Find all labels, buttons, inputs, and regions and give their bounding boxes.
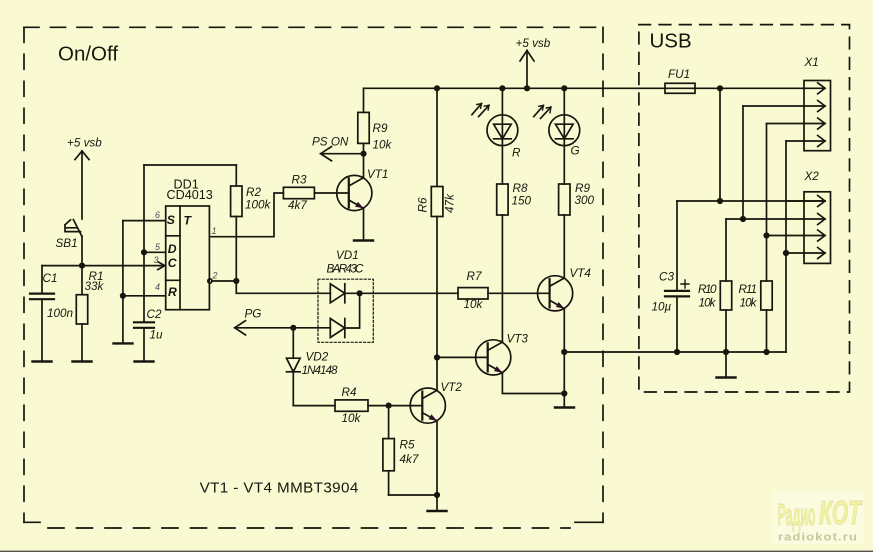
resistor R1: [76, 266, 87, 362]
node R4/R5/VT2 base junction: [386, 403, 392, 409]
svg-text:10µ: 10µ: [652, 301, 672, 314]
svg-text:R5: R5: [400, 439, 415, 452]
svg-text:1u: 1u: [150, 328, 164, 341]
node X2 pin1 junction: [717, 198, 723, 204]
On/Off dashed frame: [24, 27, 603, 528]
svg-text:G: G: [571, 145, 580, 158]
wire bottom rail to USB: [564, 351, 786, 353]
svg-text:On/Off: On/Off: [58, 43, 118, 66]
svg-text:C1: C1: [43, 272, 58, 285]
LED R: [487, 88, 518, 184]
capacitor C2: [134, 322, 154, 361]
ground (C1): [33, 360, 52, 362]
svg-text:R9: R9: [373, 122, 388, 135]
svg-text:100n: 100n: [47, 307, 73, 320]
svg-text:VD1: VD1: [336, 249, 359, 262]
svg-text:VT1: VT1: [367, 168, 388, 181]
connector X2: [767, 192, 831, 264]
svg-text:T: T: [184, 214, 193, 228]
ground (R1): [73, 360, 92, 362]
svg-text:R: R: [512, 147, 521, 160]
pushbutton SB1: [65, 220, 82, 237]
wire SB1 to node A: [81, 236, 83, 265]
node PS ON junction: [360, 151, 366, 157]
node R10/rail: [723, 349, 729, 355]
node VT3/VT4 emitter junction: [561, 390, 567, 396]
node PG/VD2 junction: [290, 325, 296, 331]
svg-text:150: 150: [512, 195, 532, 208]
wire pin D: [144, 251, 166, 253]
svg-text:R: R: [168, 285, 177, 299]
wire pin2 node to VD1 anode: [236, 281, 330, 293]
svg-text:4k7: 4k7: [400, 453, 419, 466]
diode pair VD1 dotted box: [318, 279, 373, 342]
svg-text:R6: R6: [417, 197, 430, 212]
svg-text:VT1 - VT4 MMBT3904: VT1 - VT4 MMBT3904: [200, 479, 359, 496]
node rail/X1 pin1: [717, 85, 723, 91]
svg-text:1: 1: [212, 226, 217, 236]
wire node to VT2 base: [389, 405, 423, 407]
USB dashed frame: [639, 25, 850, 392]
wire X2 pin2 to R10: [726, 218, 786, 220]
capacitor C1: [30, 266, 54, 362]
svg-text:radiokot.ru: radiokot.ru: [778, 532, 858, 544]
svg-text:VT2: VT2: [441, 381, 463, 394]
svg-text:PG: PG: [245, 308, 262, 321]
svg-text:VT4: VT4: [570, 267, 592, 280]
resistor R10: [720, 219, 731, 352]
resistor R9 (300): [559, 184, 570, 278]
diode VD2: [287, 328, 301, 406]
capacitor C3: [665, 201, 689, 352]
node VT2 emitter junction: [434, 492, 440, 498]
wire top link D to R2: [144, 164, 236, 166]
ground (USB): [717, 352, 736, 378]
svg-text:R2: R2: [246, 186, 261, 199]
svg-text:4k7: 4k7: [288, 199, 307, 212]
wire VT3 base: [437, 356, 488, 358]
wire PG with arrow: [235, 321, 331, 335]
svg-text:10k: 10k: [740, 296, 758, 309]
resistor R6: [431, 88, 443, 357]
diode VD1 top half: [330, 284, 359, 303]
svg-text:C2: C2: [147, 308, 162, 321]
svg-text:SB1: SB1: [56, 237, 78, 250]
svg-text:33k: 33k: [85, 280, 105, 293]
svg-text:R10: R10: [698, 283, 717, 296]
svg-text:6: 6: [155, 210, 160, 220]
resistor R2: [231, 165, 242, 281]
ground (S/R): [114, 342, 133, 344]
node R11/rail: [763, 349, 769, 355]
wire X1 pin2 down to X2 pin2: [742, 106, 744, 219]
resistor R3: [283, 187, 348, 198]
svg-text:R3: R3: [292, 174, 307, 187]
node R6/VT2/VT3 junction: [434, 354, 440, 360]
wire pin R: [123, 295, 166, 297]
node VT4 emitter/rail junction: [561, 349, 567, 355]
node X2 pin2 junction: [740, 216, 746, 222]
svg-text:КОТ: КОТ: [819, 494, 863, 531]
transistor VT1: [337, 175, 372, 240]
diode VD1 bottom half: [330, 319, 345, 338]
svg-text:Радио: Радио: [778, 497, 816, 532]
transistor VT2: [410, 388, 445, 495]
svg-text:47k: 47k: [444, 193, 457, 213]
ground (VT3/VT4): [555, 394, 574, 408]
node rail/LED G: [561, 85, 567, 91]
resistor R8: [497, 184, 508, 342]
resistor R9 (10k pull-up): [358, 88, 369, 153]
node rail/LED R: [499, 85, 505, 91]
svg-text:USB: USB: [650, 30, 692, 53]
svg-text:VT3: VT3: [507, 333, 529, 346]
svg-text:S: S: [167, 213, 175, 227]
power arrow +5vsb top: [520, 51, 534, 89]
svg-text:X2: X2: [804, 170, 820, 183]
inverter bubble pin 2: [208, 279, 212, 283]
svg-text:100k: 100k: [245, 199, 272, 212]
node X2 pin3 junction: [763, 232, 769, 238]
svg-text:10k: 10k: [342, 412, 362, 425]
LED G emission arrows: [534, 105, 551, 118]
svg-text:R8: R8: [513, 182, 528, 195]
svg-text:X1: X1: [804, 56, 819, 69]
svg-text:2: 2: [212, 270, 218, 280]
wire node A to DD1 pin C with arrow: [42, 262, 165, 270]
svg-text:R4: R4: [342, 386, 357, 399]
svg-text:300: 300: [575, 194, 595, 207]
svg-text:5: 5: [155, 242, 161, 252]
watermark: [773, 491, 864, 544]
wire pin 1 output to R3: [209, 193, 283, 237]
ground (VT1): [354, 239, 373, 241]
svg-text:R7: R7: [467, 270, 482, 283]
wire pin S: [123, 220, 166, 222]
LED G: [549, 88, 580, 184]
plus sign C3: [681, 280, 689, 288]
wire S/R to ground: [122, 221, 124, 344]
resistor R4: [293, 400, 388, 411]
svg-text:BAR43C: BAR43C: [327, 263, 365, 276]
svg-text:4: 4: [155, 282, 160, 292]
wire X2 pin1 to C3: [677, 200, 825, 202]
svg-text:R11: R11: [739, 283, 758, 296]
transistor VT3: [476, 340, 565, 394]
ground (VT2): [428, 495, 447, 511]
svg-text:VD2: VD2: [306, 351, 329, 364]
svg-text:+5 vsb: +5 vsb: [516, 37, 551, 50]
node VD1 cathode junction: [357, 290, 363, 296]
node C3/rail: [674, 349, 680, 355]
LED R emission arrows: [472, 104, 489, 117]
node rail/+5vsb: [524, 85, 530, 91]
svg-text:PS ON: PS ON: [312, 135, 349, 148]
resistor R7: [360, 288, 550, 299]
bottom border line: [0, 551, 873, 552]
svg-text:FU1: FU1: [668, 68, 690, 81]
svg-text:1N4148: 1N4148: [302, 364, 338, 377]
resistor R5: [383, 406, 437, 495]
svg-text:10k: 10k: [373, 139, 393, 152]
wire VT2 collector: [436, 357, 438, 390]
svg-text:+5 vsb: +5 vsb: [67, 137, 102, 150]
power arrow +5vsb left: [75, 151, 89, 219]
connector X1: [743, 81, 831, 151]
node rail/R6: [434, 85, 440, 91]
svg-text:C3: C3: [659, 271, 674, 284]
wire X1 pin3 down to X2 pin3: [766, 124, 768, 236]
wire X1 pin4 down to X2 pin4 and bottom rail: [785, 141, 787, 352]
resistor R11: [761, 236, 772, 353]
svg-text:C: C: [168, 256, 177, 270]
wire +5vsb top rail: [364, 87, 826, 89]
flip-flop DD1 body: [166, 206, 210, 310]
node X2 pin4 junction: [783, 250, 789, 256]
wire VD1 cathodes link: [345, 293, 360, 328]
node pin2/R2 junction: [233, 278, 239, 284]
svg-text:10k: 10k: [699, 296, 717, 309]
svg-text:10k: 10k: [464, 298, 484, 311]
svg-text:CD4013: CD4013: [167, 188, 213, 202]
node A junction (SB1/R1/C1/C input): [79, 263, 85, 269]
transistor VT4: [538, 276, 573, 394]
node S/R junction: [120, 293, 126, 299]
wire X1 pin1 down to X2 pin1: [719, 88, 721, 201]
wire VT1 collector to node: [363, 154, 365, 178]
fuse FU1: [665, 83, 695, 93]
svg-text:D: D: [168, 242, 177, 256]
ground (C2): [135, 360, 154, 362]
svg-text:3: 3: [154, 255, 159, 265]
wire PS ON with arrow: [321, 147, 364, 161]
wire D node vertical to C2: [143, 165, 145, 322]
wire pin 2 output: [212, 280, 236, 282]
node D junction: [141, 249, 147, 255]
